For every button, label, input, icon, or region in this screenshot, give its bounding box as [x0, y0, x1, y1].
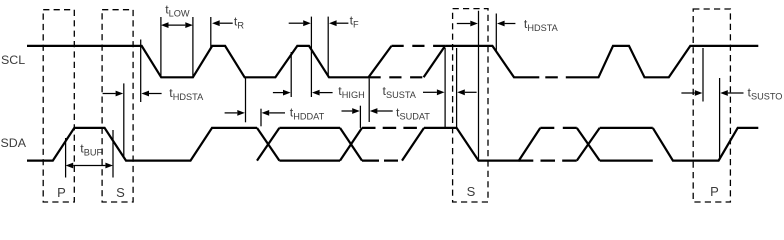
svg-text:tR: tR: [234, 15, 244, 31]
SCL rise to repeated start: [424, 46, 446, 77]
tSUSTA right line: [456, 48, 458, 128]
SDA parallel low segment 2: [600, 160, 653, 162]
tR right line: [210, 17, 212, 48]
SDA data crossover 3 fall: [577, 128, 600, 161]
tHDSTA1 left-pointing arrow: [149, 93, 162, 95]
tBUF arrow: [73, 165, 105, 167]
tLOW left line: [160, 17, 162, 77]
tHDSTA1 right line: [140, 40, 142, 103]
svg-text:tHDDAT: tHDDAT: [290, 105, 325, 121]
svg-text:tSUSTA: tSUSTA: [383, 84, 417, 100]
svg-text:SCL: SCL: [1, 53, 25, 67]
tSUDAT right line: [368, 79, 370, 123]
SCL dashed low (second break): [545, 76, 576, 78]
svg-text:tF: tF: [350, 13, 359, 29]
tHIGH left line: [290, 52, 292, 97]
stop condition box P2: [693, 9, 730, 202]
SDA parallel high segment: [279, 127, 340, 129]
tSUSTO left line: [702, 48, 704, 102]
SDA data crossover 2 rise: [340, 128, 362, 161]
start instant line S1: [123, 83, 125, 157]
SDA data crossover 1 rise: [257, 128, 279, 161]
SCL last pulse and final high: [577, 46, 759, 77]
tSUDAT left line: [359, 106, 361, 128]
tSUDAT left-pointing arrow: [377, 110, 392, 112]
SDA dashed low (time break): [384, 160, 402, 162]
SDA fall before stop then low then rise at stop then high: [653, 128, 759, 161]
svg-text:tLOW: tLOW: [165, 3, 190, 19]
svg-text:tHIGH: tHIGH: [338, 84, 364, 100]
tBUF right line: [112, 130, 114, 178]
stop instant line: [719, 78, 721, 160]
tHDSTA2 right-pointing arrow: [457, 23, 471, 25]
svg-text:P: P: [57, 185, 66, 200]
tBUF left line: [65, 138, 67, 178]
tF right-pointing arrow: [289, 22, 304, 24]
svg-text:tHDSTA: tHDSTA: [524, 17, 559, 33]
tSUSTA right-pointing arrow: [423, 91, 437, 93]
stop condition box P1: [43, 10, 74, 202]
tHDSTA2 right line: [495, 14, 497, 52]
tSUDAT right-pointing arrow: [342, 110, 353, 112]
SCL dashed high (time break): [392, 45, 446, 47]
tHDDAT right line: [260, 109, 262, 127]
tSUSTA left line: [444, 48, 446, 128]
tLOW arrow: [169, 24, 186, 26]
repeated start instant line: [478, 11, 480, 160]
SDA solid low stub: [362, 160, 379, 162]
svg-text:P: P: [710, 184, 719, 199]
tF right line: [327, 17, 329, 78]
tHDDAT left line: [245, 78, 247, 123]
SDA data crossover 2 fall: [340, 128, 362, 161]
start condition box S1: [102, 10, 133, 202]
tLOW right line: [192, 17, 194, 77]
tHDDAT right-pointing arrow: [225, 112, 238, 114]
svg-text:tHDSTA: tHDSTA: [169, 86, 204, 102]
svg-text:SDA: SDA: [1, 136, 27, 150]
SDA data crossover 1 fall: [257, 128, 279, 161]
tHIGH right-pointing arrow: [273, 92, 283, 94]
SCL solid middle part: [445, 46, 539, 77]
tF left-pointing arrow: [337, 22, 349, 24]
SDA dashed high (time break): [362, 127, 424, 129]
svg-text:tSUDAT: tSUDAT: [396, 106, 430, 122]
tHIGH left-pointing arrow: [320, 92, 333, 94]
svg-text:S: S: [116, 185, 125, 200]
svg-text:tSUSTO: tSUSTO: [748, 86, 783, 102]
SCL waveform solid left part: [27, 46, 392, 77]
SDA data crossover 3 rise: [577, 128, 600, 161]
repeated start condition box S2: [453, 9, 488, 202]
SDA waveform solid left part: [27, 128, 257, 161]
tHIGH right / tF left line: [310, 17, 312, 97]
tR arrow: [220, 22, 233, 24]
SDA parallel low segment: [279, 160, 340, 162]
SDA high then fall at repeated start then low then rise: [424, 128, 540, 161]
tHDDAT left-pointing arrow: [269, 112, 285, 114]
SDA dashed low (second break): [519, 160, 577, 162]
tSUSTO left-pointing arrow: [728, 92, 744, 94]
tSUSTA left-pointing arrow: [465, 91, 477, 93]
tHDSTA2 left-pointing arrow: [505, 23, 516, 25]
tSUSTO right-pointing arrow: [681, 92, 694, 94]
svg-text:S: S: [467, 184, 476, 199]
SDA rise to high: [402, 128, 424, 161]
tHDSTA1 right-pointing arrow: [103, 93, 116, 95]
svg-text:tBUF: tBUF: [80, 142, 102, 158]
SDA parallel high segment 2: [600, 127, 653, 129]
SDA dashed high (second break): [540, 127, 577, 129]
SCL dashed low (time break): [369, 76, 424, 78]
